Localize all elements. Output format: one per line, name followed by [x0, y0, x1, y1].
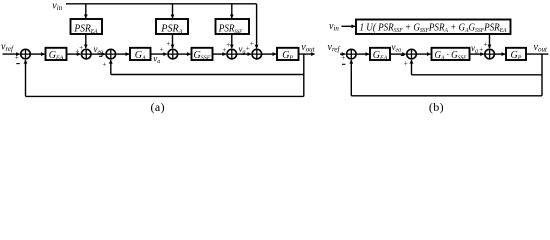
block G_EA (b)	[370, 48, 390, 62]
block G_SSF (a)	[192, 48, 213, 62]
wire: bottom feedback up into S1	[25, 60, 27, 96]
wire: v_in into PSR block (b)	[342, 25, 356, 27]
wire: S3 to G_A	[116, 53, 129, 55]
svg-text:+: +	[403, 60, 408, 68]
summer S5	[227, 49, 237, 59]
sign - at T2 horizontal input	[401, 54, 404, 56]
block PSR_A	[156, 19, 188, 35]
svg-text:+: +	[166, 40, 171, 48]
summer S6	[252, 49, 262, 59]
wire: mid feedback rail (b)	[412, 74, 543, 76]
wire: G_EA to summer T2	[390, 53, 406, 55]
summer S3	[106, 49, 116, 59]
wire: G_P output to v_out (b)	[526, 53, 548, 55]
wire: bottom feedback rail (b)	[351, 95, 542, 97]
wire: mid feedback up into S3	[110, 60, 112, 74]
svg-text:vout: vout	[301, 42, 315, 54]
wire: v_ref into summer T1	[340, 53, 345, 55]
wire: G_SSF to summer S5	[213, 53, 227, 55]
svg-text:1 U( PSRSSF + GSSFPSRA + GAGSS: 1 U( PSRSSF + GSSFPSRA + GAGSSFPSREA	[360, 23, 507, 34]
sign - at T1 feedback	[342, 63, 345, 65]
svg-text:+: +	[159, 45, 164, 53]
wire: v_in drop to PSR_EA	[85, 4, 87, 18]
wire: S5 to summer S6	[237, 53, 251, 55]
svg-text:va: va	[153, 53, 160, 65]
svg-text:vref: vref	[328, 42, 341, 54]
svg-text:vout: vout	[534, 42, 548, 54]
wire: S2 to summer S3	[91, 53, 105, 55]
summer T1	[347, 49, 357, 59]
wire: G_P output to v_out arrow	[299, 53, 315, 55]
block PSR_EA	[71, 19, 103, 35]
wire: v_in drop to PSR_SSF	[231, 4, 233, 18]
block G_P (a)	[277, 48, 299, 62]
block G_EA (a)	[46, 48, 67, 62]
sign - at S3 horizontal input	[99, 55, 102, 57]
wire: PSR block output down to summer T3	[489, 34, 491, 48]
summer S2	[81, 49, 91, 59]
svg-text:+: +	[102, 60, 107, 68]
summer T2	[407, 49, 417, 59]
svg-text:(a): (a)	[151, 100, 166, 114]
svg-text:+: +	[14, 53, 19, 61]
wire: T2 to G_A G_SSF block	[417, 53, 431, 55]
wire: bottom feedback up into T1	[350, 60, 352, 96]
wire: v_in drop to summer S6	[256, 4, 258, 49]
wire: v_out drop (b)	[541, 54, 543, 96]
summer S1	[21, 49, 31, 59]
summer S4	[168, 49, 178, 59]
svg-text:(b): (b)	[429, 100, 444, 114]
wire: T3 to G_P (b)	[495, 53, 505, 55]
svg-text:+: +	[249, 40, 254, 48]
svg-text:vg: vg	[471, 43, 478, 55]
svg-text:+: +	[226, 41, 231, 49]
wire: PSR_SSF output to summer S5	[231, 34, 233, 48]
wire: v_in drop to PSR_A	[172, 4, 174, 18]
svg-text:vin: vin	[52, 0, 62, 12]
sign - at S1 feedback	[16, 63, 19, 65]
wire: PSR_A output to summer S4	[172, 34, 174, 48]
wire: G_EA to summer S2	[67, 53, 81, 55]
wire: G_A G_SSF to summer T3	[470, 53, 484, 55]
wire: S6 to G_P	[262, 53, 276, 55]
block PSR_SSF	[216, 19, 250, 35]
summer T3	[485, 49, 495, 59]
wire: G_A to summer S4	[151, 53, 167, 55]
svg-text:+: +	[483, 40, 488, 48]
block G_A G_SSF (b)	[432, 48, 470, 62]
svg-text:vin: vin	[329, 21, 339, 33]
wire: PSR_EA output to summer S2	[85, 34, 87, 48]
wire: S1 to G_EA	[31, 53, 45, 55]
svg-text:vea: vea	[392, 42, 402, 54]
wire: v_out drop (a)	[303, 54, 305, 96]
block PSR sum (b)	[356, 20, 511, 35]
wire: T1 to G_EA (b)	[357, 53, 369, 55]
wire: S4 to G_SSF	[178, 53, 191, 55]
wire: mid feedback rail (a)	[111, 74, 304, 76]
svg-text:vref: vref	[1, 41, 14, 53]
wire: v_ref into summer S1	[3, 53, 20, 55]
wire: mid feedback up into T2	[411, 60, 413, 75]
wire: bottom feedback rail (a)	[26, 95, 304, 97]
block G_P (b)	[506, 48, 526, 62]
wire: v_in top rail (a)	[66, 3, 257, 5]
svg-text:+: +	[341, 54, 346, 62]
block G_A (a)	[130, 48, 151, 62]
